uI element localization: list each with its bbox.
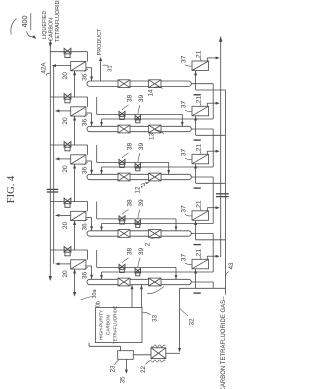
svg-text:21: 21 — [196, 200, 203, 208]
svg-text:21: 21 — [196, 249, 203, 257]
svg-text:37: 37 — [181, 149, 188, 157]
svg-text:39: 39 — [138, 248, 145, 256]
svg-text:20: 20 — [62, 270, 69, 278]
svg-text:CARBON TETRAFLUORIDE GAS–: CARBON TETRAFLUORIDE GAS– — [221, 296, 227, 389]
svg-text:21: 21 — [196, 144, 203, 152]
svg-text:20: 20 — [62, 72, 69, 80]
svg-text:38: 38 — [127, 199, 134, 207]
svg-text:LIQUEFIED: LIQUEFIED — [42, 11, 48, 40]
svg-text:20: 20 — [62, 117, 69, 125]
svg-text:20: 20 — [62, 222, 69, 230]
svg-text:39: 39 — [138, 143, 145, 151]
svg-text:38: 38 — [127, 248, 134, 256]
svg-text:36: 36 — [81, 73, 88, 81]
svg-text:13: 13 — [149, 133, 156, 141]
svg-text:TETRAFLUORIDE: TETRAFLUORIDE — [113, 306, 118, 344]
svg-text:36: 36 — [81, 167, 88, 175]
svg-text:37: 37 — [181, 205, 188, 213]
svg-text:43: 43 — [228, 262, 235, 270]
svg-text:37: 37 — [181, 254, 188, 262]
svg-text:38: 38 — [127, 143, 134, 151]
svg-text:CARBON: CARBON — [49, 18, 55, 41]
svg-text:39: 39 — [138, 199, 145, 207]
svg-text:33: 33 — [152, 315, 159, 323]
svg-text:36: 36 — [81, 119, 88, 127]
svg-text:400: 400 — [20, 16, 29, 28]
svg-text:37: 37 — [181, 55, 188, 63]
svg-text:21: 21 — [196, 96, 203, 104]
svg-text:36: 36 — [81, 272, 88, 280]
svg-text:22: 22 — [140, 366, 147, 374]
svg-text:TETRAFLUORIDE: TETRAFLUORIDE — [55, 0, 61, 42]
svg-text:35: 35 — [120, 376, 127, 384]
svg-text:37: 37 — [181, 101, 188, 109]
svg-text:23: 23 — [109, 365, 116, 373]
svg-text:42A: 42A — [41, 62, 48, 74]
svg-text:32: 32 — [189, 318, 196, 326]
svg-text:PRODUCT: PRODUCT — [97, 28, 103, 55]
svg-text:39: 39 — [138, 95, 145, 103]
svg-text:20: 20 — [62, 165, 69, 173]
svg-text:2: 2 — [145, 242, 152, 246]
svg-text:38: 38 — [127, 95, 134, 103]
svg-text:14: 14 — [148, 89, 155, 97]
svg-text:CARBON: CARBON — [106, 315, 111, 335]
svg-text:30a: 30a — [92, 290, 98, 299]
svg-text:HIGH-PURITY: HIGH-PURITY — [99, 310, 104, 340]
svg-text:36: 36 — [81, 223, 88, 231]
svg-text:FIG. 4: FIG. 4 — [6, 175, 17, 203]
svg-text:12: 12 — [135, 186, 142, 194]
svg-text:31: 31 — [108, 65, 114, 71]
svg-text:21: 21 — [196, 50, 203, 58]
